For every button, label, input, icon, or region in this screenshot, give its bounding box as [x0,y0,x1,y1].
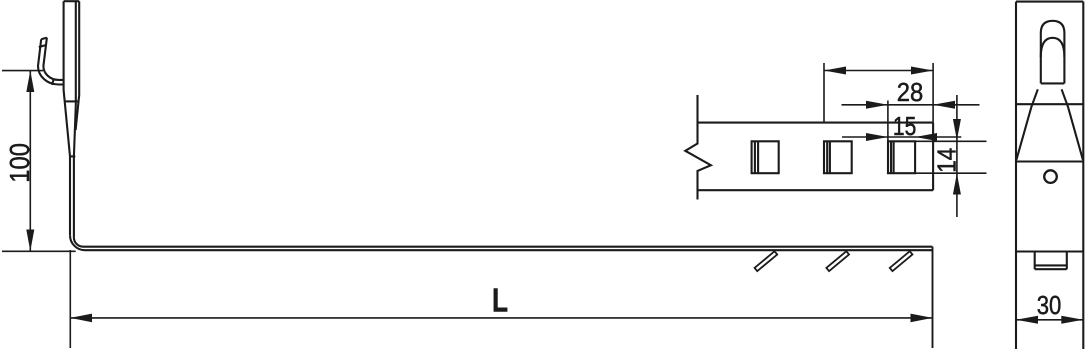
crease tick upper [64,100,78,102]
hole tick 1 on leg [755,251,778,271]
arrow 28 right(point left) [933,101,955,109]
hook tip cap [41,38,47,40]
top dim: extension above strip right [932,63,934,123]
dim 14: hole3 bottom extension line [915,172,986,174]
hook strip tick [52,80,54,85]
strip bottom edge [698,189,934,191]
tongue inner arc [1041,38,1065,57]
dim 100: dimension line [29,71,31,252]
hook inner edge [43,38,63,80]
arrow 14 up [953,173,961,194]
bend line C [1016,250,1083,252]
dim 30: dimension line [1016,319,1083,321]
bend outer + leg bottom line [70,235,932,250]
hole 1 [752,141,779,173]
arrow 30 right [1061,316,1083,324]
body right edge [1082,2,1084,349]
hole 3 [888,141,915,173]
shoulder line B [1016,160,1083,162]
bar top cap [64,0,80,2]
strip left break line [685,95,711,200]
svg-text:L: L [492,282,508,319]
hole 2 [824,141,852,173]
dim 14: hole3 top extension line [915,140,986,142]
bend inner + leg top line [74,238,933,247]
hole tick 2 on leg [826,251,849,271]
arrow 30 left [1016,316,1038,324]
top dim: dimension line [824,70,933,72]
dim 28/15: hole3 left extension line [887,101,889,142]
arrow 15 right(point left) [915,133,937,141]
arrow 100 up [26,71,34,92]
tongue bottom [1041,82,1065,84]
dim 28: dimension line [842,104,980,106]
bottom slot [1035,252,1067,270]
svg-text:100: 100 [4,143,35,183]
left tab diagonal [1016,89,1037,160]
svg-text:30: 30 [1037,290,1062,320]
dim 100: bottom extension line [2,250,76,252]
bar inner right edge [74,1,76,237]
hole tick 3 on leg [890,251,913,271]
svg-text:28: 28 [897,77,924,107]
arrow L right [911,314,933,323]
dim L: dimension line [70,317,932,319]
dim L: left extension line [69,250,71,348]
right tab diagonal [1062,89,1083,160]
arrow topdim left [824,67,846,75]
hook arm tick [39,45,45,47]
strip top edge [698,122,934,124]
hole circle [1044,170,1057,183]
tongue outer [1041,21,1065,84]
svg-text:15: 15 [893,111,916,141]
bar outer right edge (fold) [76,1,80,130]
dim 15: dimension line [842,136,961,138]
top dim: left extension line [823,63,825,123]
svg-text:14: 14 [931,148,961,173]
arrow 14 down [953,119,961,140]
bar left edge with taper [64,1,70,235]
arrow 28 left(point right) [866,101,888,109]
body top cap [1016,1,1083,3]
body left edge [1015,2,1017,349]
crease tick lower [69,155,75,157]
hook outer edge [38,39,64,84]
shoulder line A [1016,103,1083,105]
strip right end [932,123,934,191]
arrow 100 down [26,230,34,252]
dim 14: dimension line [956,95,958,217]
dim L: right extension line [932,247,934,348]
dim 100: top extension line [2,70,43,72]
arrow topdim right [911,67,933,75]
arrow L left [70,314,92,323]
arrow 15 left(point right) [866,133,888,141]
